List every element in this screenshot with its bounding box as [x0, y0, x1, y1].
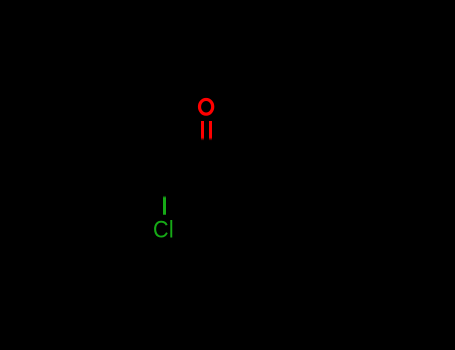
atom O — [200, 99, 213, 114]
svg-text:Cl: Cl — [153, 215, 174, 243]
double bond C=O (red half, right line) — [209, 121, 212, 141]
double bond C=O (red half, left line) — [201, 121, 204, 141]
bond C-Cl (green half) — [163, 196, 166, 215]
atom Cl — [153, 215, 174, 243]
